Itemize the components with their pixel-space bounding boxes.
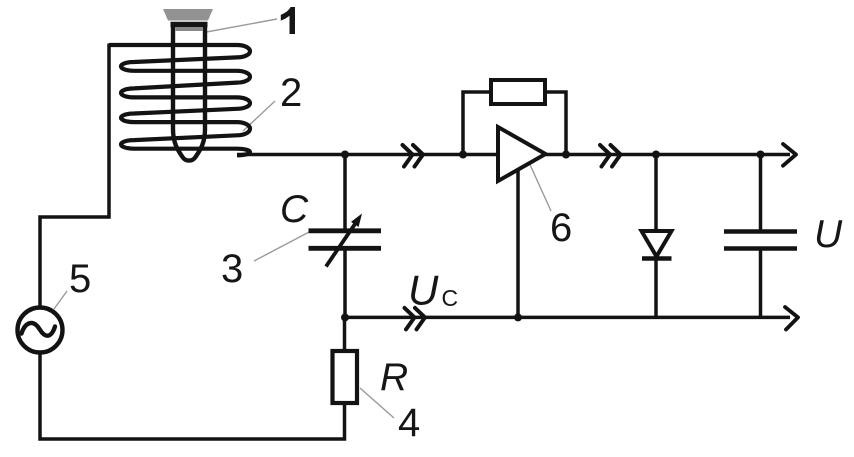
svg-text:U: U	[408, 267, 439, 314]
svg-text:R: R	[380, 356, 408, 399]
svg-text:3: 3	[221, 247, 243, 291]
svg-text:C: C	[280, 188, 309, 231]
svg-text:6: 6	[550, 206, 572, 250]
svg-text:2: 2	[280, 71, 302, 115]
svg-text:U: U	[814, 213, 843, 256]
svg-text:C: C	[442, 285, 459, 311]
svg-text:4: 4	[398, 401, 420, 445]
svg-text:5: 5	[69, 257, 91, 301]
